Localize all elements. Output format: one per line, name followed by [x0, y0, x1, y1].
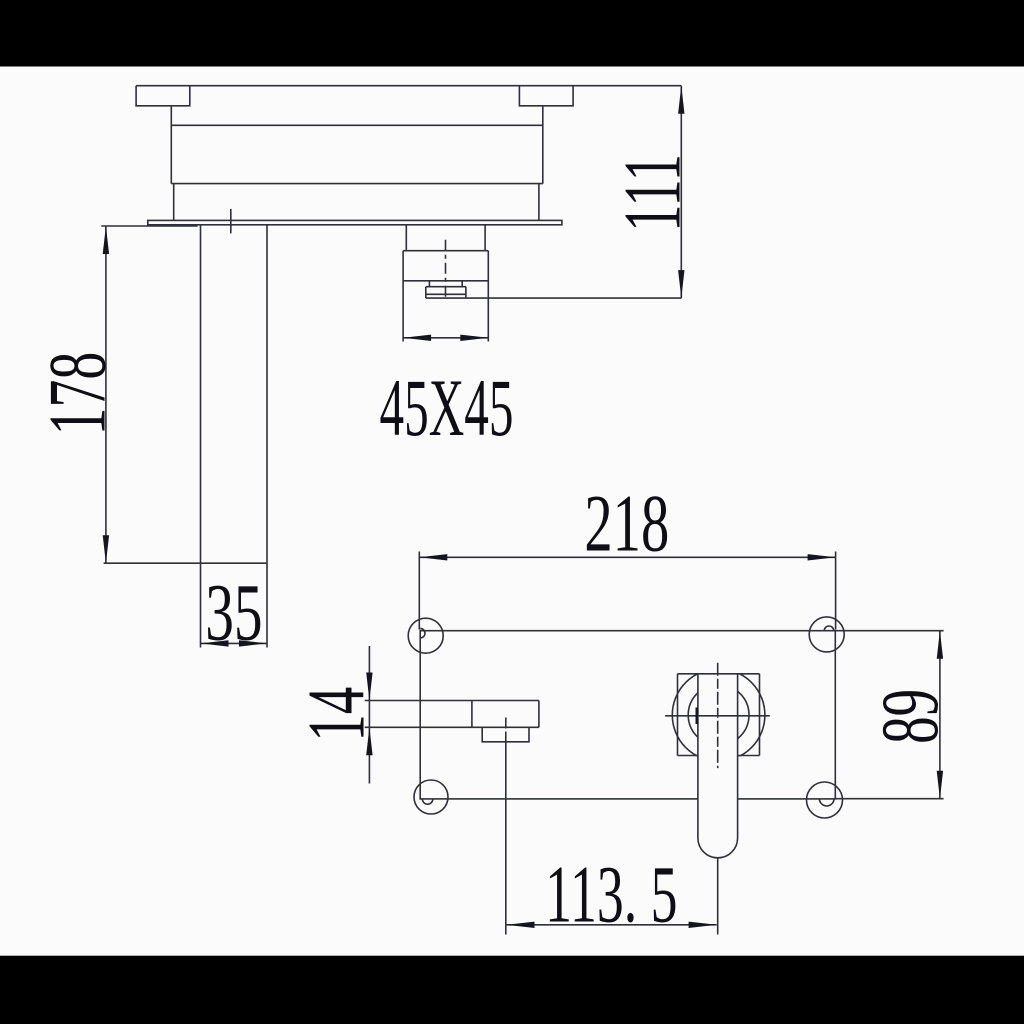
- escutcheon square top edge: [678, 673, 760, 675]
- dim 178 line: [105, 226, 107, 563]
- arrow 113.5 left: [507, 922, 535, 928]
- dim 113.5 line: [507, 924, 717, 926]
- valve centre blotch: [696, 708, 698, 725]
- aerator body right: [465, 287, 467, 298]
- dim 14 line: [368, 646, 370, 784]
- wall plate: [148, 220, 562, 224]
- dim 89 bottom extension: [835, 798, 943, 800]
- svg-text:14: 14: [292, 687, 382, 742]
- aerator body left: [425, 287, 427, 298]
- arrow 113.5 right: [689, 922, 717, 928]
- spout bar top line: [365, 700, 539, 702]
- arrow 14 bottom: [366, 727, 372, 755]
- escutcheon square sides: [678, 674, 760, 756]
- mounting box neck left: [405, 225, 407, 251]
- arrow 218 right: [808, 554, 836, 560]
- spout bar right cap: [538, 701, 540, 728]
- spout centre line upper dash: [505, 718, 507, 729]
- svg-text:111: 111: [608, 154, 699, 232]
- right mounting tab: [519, 86, 573, 106]
- svg-text:113. 5: 113. 5: [545, 848, 677, 939]
- spout body upper left vertical: [170, 106, 172, 184]
- arrow 178 down: [103, 535, 109, 563]
- dim 218 right extension: [835, 552, 837, 630]
- arrow 218 left: [419, 554, 447, 560]
- arrow 89 down: [937, 771, 943, 799]
- aerator inner line: [426, 293, 466, 295]
- arrow 178 up: [103, 226, 109, 254]
- aerator bottom leader line to 111: [426, 297, 682, 299]
- spout bar divider: [471, 701, 473, 728]
- mixer body rectangle: [420, 631, 835, 799]
- corner slot bottom-right: [819, 799, 834, 806]
- dim 218 left extension: [418, 552, 420, 630]
- corner circle top-right: [809, 617, 844, 652]
- bottom letterbox bar: [0, 956, 1024, 1024]
- arrow 35 right: [239, 640, 267, 646]
- mounting box mid line: [403, 280, 488, 282]
- arrow 45 right: [460, 335, 488, 341]
- mounting box right side: [487, 251, 489, 342]
- dim 45 line: [403, 337, 488, 339]
- arrow 111 up: [678, 86, 684, 114]
- dim 89 top extension: [835, 630, 943, 632]
- plate tick mark: [230, 209, 232, 234]
- aerator step right: [461, 281, 463, 287]
- mounting box left side: [402, 251, 404, 342]
- arrow 89 up: [937, 631, 943, 659]
- arrow 35 left: [201, 640, 229, 646]
- pipe left line: [200, 225, 202, 648]
- aerator step left: [428, 281, 430, 287]
- handle bottom extension line to 113.5: [717, 858, 719, 935]
- aerator body top: [426, 286, 466, 288]
- mounting box neck right: [484, 225, 486, 251]
- spout centre extension line to 113.5: [505, 732, 507, 935]
- spout top line: [136, 85, 681, 87]
- dim 218 line: [419, 556, 835, 558]
- spout body bottom line: [171, 183, 543, 185]
- dim 111 line: [680, 86, 682, 298]
- arrow 14 top: [366, 673, 372, 701]
- corner circle bottom-right: [807, 782, 843, 818]
- svg-text:178: 178: [33, 352, 123, 436]
- svg-text:218: 218: [584, 478, 669, 569]
- pipe right line: [266, 225, 268, 648]
- arrow 45 left: [403, 335, 431, 341]
- svg-text:45X45: 45X45: [380, 362, 514, 453]
- svg-text:35: 35: [205, 568, 262, 658]
- eraser below escutcheon: [678, 756, 758, 767]
- mounting box top: [403, 250, 488, 252]
- spout lower right vertical: [538, 184, 540, 221]
- left mounting tab: [136, 86, 190, 106]
- corner circle bottom-left: [414, 780, 448, 814]
- valve inner circle: [688, 685, 749, 746]
- dim 178 top extension: [101, 225, 197, 227]
- dim 89 line: [939, 631, 941, 799]
- corner slot bottom-left: [422, 799, 433, 804]
- svg-text:89: 89: [865, 689, 955, 744]
- corner circle top-left: [408, 618, 443, 653]
- dim 35 line: [201, 642, 268, 644]
- corner slot top-left: [420, 628, 425, 638]
- handle outline: [698, 674, 738, 858]
- spout body mid line: [171, 124, 543, 126]
- aerator box under spout: [482, 727, 529, 742]
- spout lower left vertical: [173, 184, 175, 221]
- arrow 111 down: [678, 270, 684, 298]
- valve vertical centre dash-dot line: [717, 663, 719, 768]
- eraser above escutcheon: [678, 662, 758, 673]
- corner slot top-right: [824, 626, 833, 631]
- dim 178 bottom extension: [104, 562, 267, 564]
- box centre dash-dot line: [445, 240, 447, 298]
- spout bar bottom line: [365, 726, 539, 728]
- top letterbox bar: [0, 0, 1024, 67]
- spout body upper right vertical: [542, 106, 544, 184]
- valve horizontal centre line: [665, 715, 770, 717]
- valve outer circle: [672, 669, 765, 762]
